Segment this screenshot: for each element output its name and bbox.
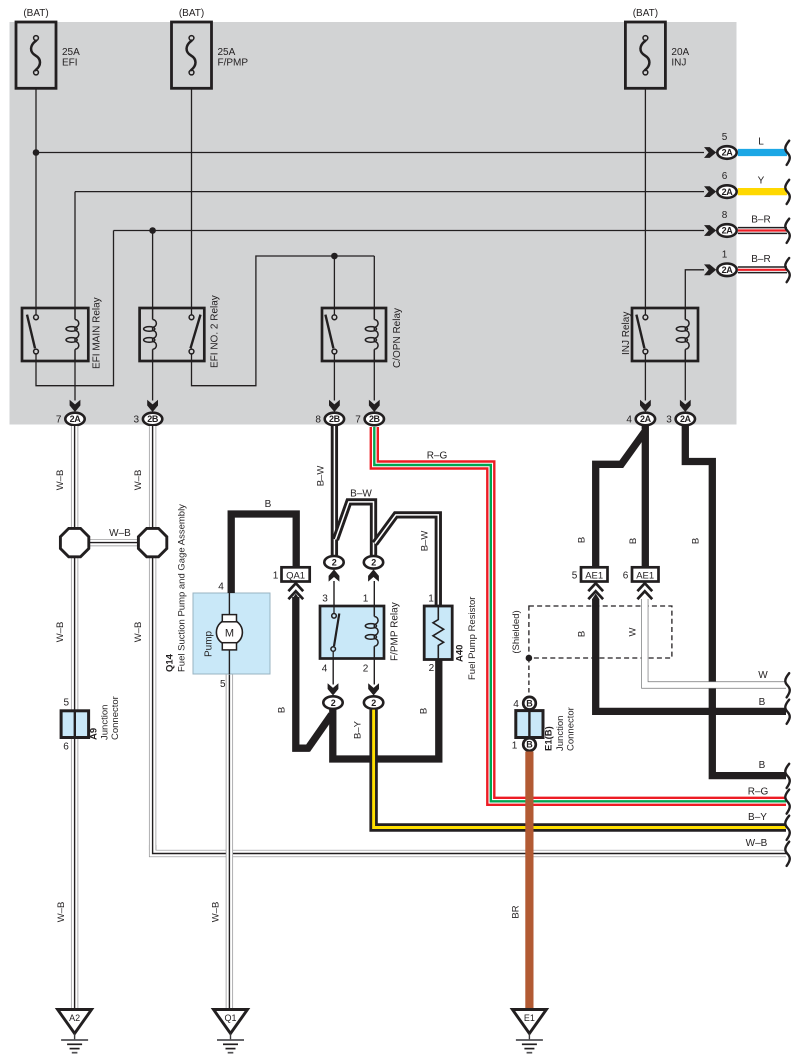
svg-text:C/OPN Relay: C/OPN Relay	[392, 308, 403, 368]
break symbol row 6	[785, 180, 789, 204]
svg-text:6: 6	[623, 570, 629, 581]
wire B-Y from F/PMP pin 2 to break	[374, 710, 786, 828]
ground Q1	[214, 1010, 248, 1034]
svg-text:W–B: W–B	[133, 622, 144, 643]
wire Y stub row 6	[738, 188, 787, 195]
arrow into connector 7-2B	[369, 400, 380, 412]
wire W-B from 3-2B to octagon junction	[149, 426, 156, 850]
wire C/OPN relay coil to connector 7-2B	[373, 361, 375, 401]
svg-text:6: 6	[722, 171, 728, 182]
svg-text:4: 4	[322, 664, 328, 675]
svg-text:Fuel Suction Pump and Gage Ass: Fuel Suction Pump and Gage Assembly	[177, 504, 188, 672]
wire row L: node at fuse EFI feed to connector 5-2A	[36, 152, 704, 154]
svg-text:1: 1	[722, 249, 728, 260]
break symbol row 8	[785, 219, 789, 243]
svg-text:7: 7	[56, 415, 62, 426]
connector 8-2B at x=334.4	[325, 413, 344, 426]
svg-text:Q14: Q14	[165, 653, 176, 672]
break symbol row 5	[785, 141, 789, 165]
wire F/PMP pin 2 lead	[373, 659, 375, 685]
svg-text:1: 1	[363, 594, 369, 605]
relay U1 EFI MAIN Relay box	[22, 308, 88, 361]
relay U3 coil	[374, 320, 378, 350]
connector 2 on F/PMP pin 1	[364, 556, 383, 569]
svg-text:7: 7	[355, 415, 361, 426]
component Q14 Fuel Suction Pump and Gage Assembly box	[193, 593, 270, 674]
motor M brush bottom	[222, 643, 236, 650]
svg-text:B: B	[277, 707, 288, 713]
svg-text:5: 5	[722, 132, 728, 143]
svg-text:(BAT): (BAT)	[633, 8, 658, 19]
wire C/OPN relay coil feed	[373, 256, 375, 308]
svg-text:(Shielded): (Shielded)	[511, 610, 522, 653]
wire B diagonal into pump feed	[307, 715, 332, 750]
ground E1	[512, 1010, 546, 1034]
node junction dot at (334.4,256)	[331, 253, 338, 260]
wire F/PMP pin 4 lead	[332, 659, 334, 685]
connector 5-2A	[717, 146, 736, 159]
svg-text:2: 2	[332, 558, 337, 568]
arrow up into pin3 ellipse	[329, 569, 340, 581]
wire INJ relay coil to connector 3-2A	[684, 361, 686, 401]
connector 7-2B at x=374.3	[365, 413, 384, 426]
svg-text:Connector: Connector	[110, 696, 121, 740]
svg-text:W–B: W–B	[55, 470, 66, 491]
svg-text:B: B	[577, 631, 588, 637]
svg-text:E1: E1	[524, 1013, 535, 1023]
wire fuse EFI feed to EFI MAIN relay switch	[35, 75, 37, 308]
wire B&#8211;R stub row 8	[738, 227, 787, 234]
arrow into connector 5-2A	[704, 147, 716, 158]
wire B-W from 8-2B to F/PMP relay pin 3	[331, 426, 338, 555]
wire B from 4-2A to 6-AE1	[642, 426, 649, 567]
wire C/OPN relay switch feed	[333, 256, 335, 308]
connector 1-2A	[717, 264, 736, 277]
gray relay-block background	[10, 22, 737, 425]
wire B below QA1 to F/PMP pin 4 net	[292, 594, 299, 600]
svg-text:W–B: W–B	[55, 622, 66, 643]
svg-text:W–B: W–B	[211, 902, 222, 923]
wire L stub row 5	[738, 149, 787, 156]
svg-text:B–W: B–W	[316, 466, 327, 487]
svg-text:B: B	[628, 538, 639, 544]
octagon junction left	[60, 528, 88, 556]
svg-text:F/PMP: F/PMP	[218, 58, 249, 69]
svg-text:EFI NO. 2 Relay: EFI NO. 2 Relay	[210, 295, 221, 368]
wire B from 5-AE1 to break row	[596, 599, 786, 711]
svg-text:R–G: R–G	[427, 451, 448, 462]
svg-text:B: B	[526, 698, 533, 708]
svg-text:2A: 2A	[722, 187, 734, 197]
connector E1(B) box	[516, 711, 543, 738]
connector A9 box	[61, 711, 89, 738]
wire W-B row to break	[153, 845, 786, 854]
svg-text:B–R: B–R	[751, 215, 770, 226]
svg-text:B: B	[759, 697, 766, 708]
relay U4 coil	[685, 320, 689, 350]
wire B-W branch to A40 resistor	[375, 515, 439, 606]
relay U1 switch contact	[35, 308, 37, 315]
svg-text:B–Y: B–Y	[353, 720, 364, 739]
svg-text:(BAT): (BAT)	[23, 8, 48, 19]
motor M brush top	[222, 615, 236, 622]
svg-text:Q1: Q1	[224, 1013, 236, 1023]
svg-text:8: 8	[315, 415, 321, 426]
connector 5-AE1 box	[581, 567, 608, 581]
wire row Y to connector 6-2A	[75, 191, 704, 193]
arrow down into pin4 ellipse	[328, 683, 339, 695]
svg-text:W: W	[628, 627, 639, 636]
node junction dot at (36,152.5)	[33, 149, 40, 156]
relay U5 F/PMP Relay box	[320, 606, 384, 659]
wire B bus pin4-stem to A40 pin 2	[333, 658, 439, 759]
arrow into connector 8-2B	[329, 400, 340, 412]
connector 3-2B at x=152.6	[143, 413, 162, 426]
svg-text:Connector: Connector	[566, 707, 577, 751]
wire fuse F/PMP feed to EFI NO.2 relay switch	[191, 75, 193, 308]
svg-text:(BAT): (BAT)	[179, 8, 204, 19]
svg-text:2: 2	[363, 664, 369, 675]
arrow down into pin2 ellipse	[368, 683, 379, 695]
svg-text:3: 3	[322, 594, 328, 605]
arrow into connector 4-2A	[640, 400, 651, 412]
svg-text:2B: 2B	[329, 414, 341, 424]
break symbol B row1	[785, 700, 789, 724]
wire EFI NO.2 relay switch output to C/OPN feed	[192, 256, 375, 386]
connector 6-2A	[717, 185, 736, 198]
wire B from 3-2A jog to vertical and break row	[685, 426, 786, 776]
svg-text:4: 4	[218, 581, 224, 592]
relay U2 coil	[153, 320, 157, 350]
svg-text:2A: 2A	[722, 148, 734, 158]
connector 3-2A at x=685.3	[676, 413, 695, 426]
chevrons below QA1	[288, 583, 303, 591]
svg-text:2: 2	[371, 558, 376, 568]
wire B branch diagonal to 5-AE1	[596, 432, 645, 567]
connector QA1 box	[282, 567, 310, 581]
svg-text:F/PMP Relay: F/PMP Relay	[390, 602, 401, 661]
svg-text:5: 5	[64, 698, 70, 709]
svg-text:B: B	[577, 537, 588, 543]
relay U1 coil	[75, 320, 79, 350]
svg-text:3: 3	[666, 415, 672, 426]
fuse 20A INJ (BAT)	[625, 22, 665, 88]
wire fuse INJ feed to INJ relay switch	[644, 75, 646, 308]
svg-text:2A: 2A	[70, 414, 82, 424]
arrow into connector 7-2A	[70, 400, 81, 412]
svg-text:5: 5	[220, 679, 226, 690]
svg-text:L: L	[758, 137, 764, 148]
wire F/PMP pin 3 lead	[333, 581, 335, 606]
svg-text:3: 3	[134, 415, 140, 426]
svg-text:20A: 20A	[671, 47, 689, 58]
arrow into connector 3-2B	[147, 400, 158, 412]
svg-text:Junction: Junction	[555, 716, 566, 751]
connector 2 on F/PMP pin 2	[364, 696, 383, 709]
arrow into connector 1-2A	[704, 264, 716, 275]
fuse 25A EFI (BAT)	[16, 22, 56, 88]
wire Q14 internal	[228, 593, 230, 674]
svg-text:B: B	[265, 499, 272, 510]
wire W-B from 7-2A to junction connector A9 and ground A2	[71, 426, 78, 1010]
shield box (Shielded)	[529, 606, 672, 658]
node junction dot at (152.6,230.5)	[149, 227, 156, 234]
wire INJ relay switch to connector 4-2A	[644, 361, 646, 401]
wire W-B from Q14 pin 5 to ground Q1	[226, 674, 233, 1010]
ground A2	[58, 1010, 92, 1034]
svg-text:W–B: W–B	[56, 902, 67, 923]
svg-text:INJ Relay: INJ Relay	[621, 312, 632, 355]
svg-text:2: 2	[371, 698, 376, 708]
break symbol R-G row	[785, 790, 789, 814]
svg-text:A9: A9	[89, 728, 100, 740]
svg-text:2: 2	[331, 698, 336, 708]
connector 4-2A at x=645.4	[636, 413, 655, 426]
svg-text:Fuel Pump Resistor: Fuel Pump Resistor	[467, 597, 478, 680]
wire EFI NO.2 relay coil riser	[152, 231, 154, 309]
svg-text:M: M	[225, 628, 234, 640]
svg-text:2B: 2B	[369, 414, 381, 424]
svg-text:25A: 25A	[62, 47, 80, 58]
svg-text:R–G: R–G	[748, 787, 769, 798]
node shield ground dot	[526, 655, 533, 662]
chevrons below 6-AE1	[637, 583, 652, 591]
motor M circle	[216, 619, 242, 645]
svg-text:A40: A40	[455, 645, 466, 662]
chevrons below 5-AE1	[588, 583, 603, 591]
svg-text:B: B	[759, 760, 766, 771]
resistor zigzag	[433, 606, 444, 660]
break symbol W row	[785, 673, 789, 697]
svg-text:EFI: EFI	[62, 58, 78, 69]
wire dashed shield drain to E1(B)	[528, 658, 530, 696]
wire B&#8211;R stub row 1	[738, 266, 787, 273]
svg-text:B: B	[526, 740, 533, 750]
svg-text:2A: 2A	[640, 414, 652, 424]
svg-text:1: 1	[512, 741, 518, 752]
svg-text:AE1: AE1	[636, 570, 654, 581]
break symbol row 1	[785, 258, 789, 282]
connector 2 on F/PMP pin 4	[323, 696, 342, 709]
arrow up into pin1 ellipse	[368, 569, 379, 581]
arrow into connector 3-2A	[680, 400, 691, 412]
relay U2 switch contact	[191, 308, 193, 315]
svg-text:8: 8	[722, 210, 728, 221]
relay U4 INJ Relay box	[632, 308, 698, 361]
connector E1(B) pin 1 circle	[523, 738, 536, 751]
svg-text:E1(B): E1(B)	[544, 726, 555, 751]
wire R-G from 7-2B to break	[374, 427, 786, 801]
svg-text:5: 5	[572, 570, 578, 581]
svg-text:B–W: B–W	[350, 489, 372, 500]
relay U5 switch contact	[333, 606, 335, 613]
svg-text:Pump: Pump	[204, 630, 215, 657]
svg-text:2B: 2B	[147, 414, 159, 424]
wire EFI MAIN relay coil riser	[74, 192, 76, 308]
svg-text:2A: 2A	[722, 265, 734, 275]
connector E1(B) pin 4 circle	[523, 697, 536, 710]
svg-text:2: 2	[429, 663, 435, 674]
svg-text:4: 4	[513, 699, 519, 710]
svg-text:6: 6	[63, 742, 69, 753]
svg-text:4: 4	[626, 415, 632, 426]
svg-text:INJ: INJ	[671, 58, 686, 69]
svg-text:2A: 2A	[680, 414, 692, 424]
svg-text:W: W	[758, 670, 768, 681]
svg-text:AE1: AE1	[585, 570, 603, 581]
wire EFI NO.2 relay coil to connector 3-2B	[152, 361, 154, 401]
relay U3 C/OPN Relay box	[322, 308, 386, 361]
relay U3 switch contact	[333, 308, 335, 315]
svg-text:QA1: QA1	[286, 570, 305, 581]
svg-text:B: B	[419, 708, 430, 714]
wire W-B between octagon junctions	[75, 539, 153, 546]
arrow into connector 8-2A	[704, 225, 716, 236]
fuse 25A F/PMP (BAT)	[172, 22, 212, 88]
svg-text:25A: 25A	[218, 47, 236, 58]
wire row B-R to connector 8-2A	[114, 230, 705, 232]
wire B from Q14 pin 4 to connector QA1	[231, 514, 296, 593]
connector 6-AE1 box	[632, 567, 659, 581]
break symbol W-B row	[785, 842, 789, 866]
wire row B-R to connector 1-2A and INJ relay coil	[685, 270, 704, 308]
wire EFI MAIN relay coil to connector 7-2A	[74, 361, 76, 401]
connector 2 on F/PMP pin 3	[324, 556, 343, 569]
wire C/OPN relay switch to connector 8-2B	[333, 361, 335, 401]
svg-text:B: B	[691, 538, 702, 544]
connector 8-2A	[717, 224, 736, 237]
svg-text:B–W: B–W	[420, 531, 431, 552]
relay U2 EFI NO.2 Relay box	[140, 308, 205, 361]
break symbol B-Y row	[785, 816, 789, 840]
svg-text:1: 1	[428, 594, 434, 605]
svg-text:W–B: W–B	[109, 528, 131, 539]
svg-text:A2: A2	[69, 1013, 80, 1023]
wire F/PMP pin 1 lead	[373, 581, 375, 606]
wire W from 6-AE1 through shield to break	[645, 599, 786, 685]
wire B-W branch to F/PMP relay pin 1	[336, 502, 374, 556]
svg-text:B–R: B–R	[751, 254, 770, 265]
relay U5 coil	[374, 617, 378, 647]
svg-text:EFI MAIN Relay: EFI MAIN Relay	[92, 297, 103, 369]
svg-text:Junction: Junction	[100, 705, 111, 740]
wire EFI MAIN relay switch output riser	[36, 231, 114, 386]
svg-text:W–B: W–B	[746, 838, 768, 849]
svg-text:BR: BR	[511, 905, 522, 918]
arrow into connector 6-2A	[704, 186, 716, 197]
svg-text:Y: Y	[758, 176, 765, 187]
svg-text:B–Y: B–Y	[748, 812, 767, 823]
component A40 Fuel Pump Resistor box	[424, 606, 452, 660]
relay U4 switch contact	[644, 308, 646, 315]
octagon junction right	[138, 528, 166, 556]
connector 7-2A at x=75	[65, 413, 84, 426]
break symbol B row2	[785, 764, 789, 788]
svg-text:2A: 2A	[722, 226, 734, 236]
wire BR from E1(B) pin 1 to ground E1	[525, 752, 533, 1010]
svg-text:W–B: W–B	[133, 470, 144, 491]
svg-text:1: 1	[273, 570, 279, 581]
